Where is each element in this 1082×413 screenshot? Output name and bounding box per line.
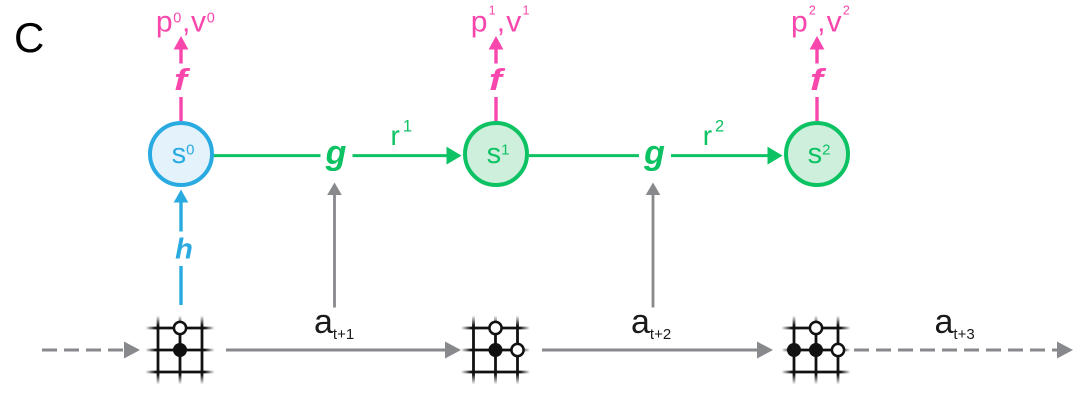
black stone bbox=[809, 343, 823, 357]
action arrow a_t+2 shaft bbox=[652, 194, 655, 308]
state node s0 bbox=[150, 123, 212, 185]
white stone bbox=[810, 322, 822, 334]
prediction arrow f1 shaft lower bbox=[494, 97, 497, 121]
white stone bbox=[832, 344, 844, 356]
svg-text:p1,v1: p1,v1 bbox=[471, 4, 531, 39]
prediction arrow f0 shaft lower bbox=[179, 97, 182, 121]
prediction arrow f1 shaft upper bbox=[494, 49, 497, 64]
svg-text:C: C bbox=[14, 14, 44, 61]
outgoing dashed trajectory arrow bbox=[854, 349, 1057, 352]
observation arrow o1 to o2 bbox=[226, 349, 446, 352]
representation arrow h head bbox=[174, 190, 189, 203]
dynamics arrow head into s2 bbox=[768, 147, 783, 165]
action arrow a_t+1 shaft bbox=[333, 194, 336, 308]
white stone bbox=[174, 322, 186, 334]
dynamics wire s0 to g1 bbox=[213, 154, 321, 157]
prediction arrow f1 head bbox=[489, 36, 504, 50]
svg-text:h: h bbox=[175, 234, 193, 266]
go board observation o2 bbox=[461, 316, 530, 385]
dynamics wire g1 to s1 bbox=[353, 154, 448, 157]
svg-text:g: g bbox=[325, 134, 347, 172]
state node s1 bbox=[465, 123, 527, 185]
svg-text:g: g bbox=[643, 134, 665, 172]
black stone bbox=[787, 343, 801, 357]
prediction arrow f0 head bbox=[174, 36, 189, 50]
representation arrow h shaft upper bbox=[179, 202, 182, 232]
dynamics wire g2 to s2 bbox=[671, 154, 769, 157]
go board observation o1 bbox=[146, 316, 215, 385]
representation arrow h shaft lower bbox=[179, 266, 182, 305]
white stone bbox=[489, 322, 501, 334]
go board observation o3 bbox=[782, 316, 851, 385]
prediction arrow f2 shaft upper bbox=[815, 49, 818, 64]
prediction arrow f0 shaft upper bbox=[179, 49, 182, 64]
observation arrow o2 to o3 bbox=[542, 349, 758, 352]
action arrow a_t+2 head bbox=[646, 183, 661, 196]
svg-text:p2,v2: p2,v2 bbox=[791, 4, 851, 39]
svg-text:p0,v0: p0,v0 bbox=[156, 6, 216, 39]
prediction arrow f2 shaft lower bbox=[815, 97, 818, 121]
action arrow a_t+1 head bbox=[327, 183, 342, 196]
state node s2 bbox=[786, 123, 848, 185]
black stone bbox=[173, 343, 187, 357]
incoming dashed trajectory arrow bbox=[42, 349, 126, 352]
black stone bbox=[489, 343, 503, 357]
white stone bbox=[511, 344, 523, 356]
dynamics arrow head into s1 bbox=[447, 147, 462, 165]
dynamics wire s1 to g2 bbox=[529, 154, 639, 157]
prediction arrow f2 head bbox=[810, 36, 825, 50]
